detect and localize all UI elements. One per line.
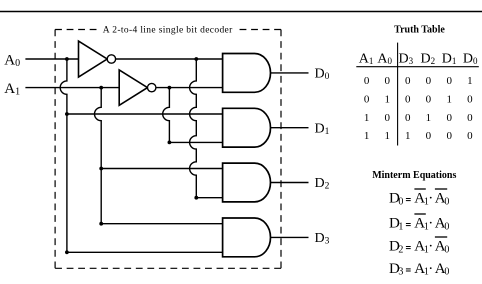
inverter U1 (A0): [79, 41, 116, 77]
wire A0' branch to AND3 bottom: [196, 197, 222, 199]
wire A0 branch to AND4 bottom: [67, 251, 223, 253]
and-gate G3 (D2): [223, 163, 271, 202]
and-gate G2 (D1): [223, 108, 271, 147]
wire A0 rail to AND2 top: [67, 113, 223, 115]
top page rule: [0, 11, 482, 13]
junction A0 rail3: [65, 112, 69, 116]
wire A0' rail to AND1 top: [116, 58, 223, 60]
junction A1 corner: [99, 222, 103, 226]
junction A0' rail tap: [194, 57, 198, 61]
svg-text:A 2-to-4 line single bit decod: A 2-to-4 line single bit decoder: [103, 26, 233, 36]
equation D2: [389, 237, 449, 255]
equation D3: [389, 261, 449, 278]
wire vertical A1' drop with hop: [163, 88, 170, 143]
truth table column divider: [397, 43, 399, 146]
junction A1' corner: [168, 141, 172, 145]
wire A0 input: [25, 58, 78, 60]
wire D1 output: [271, 127, 309, 129]
junction A1 rail tap: [99, 86, 103, 90]
junction A0 rail tap: [65, 57, 69, 61]
junction A0' corner: [194, 196, 198, 200]
svg-text:D3A1·A0: D3A1·A0: [389, 261, 449, 278]
junction A1 branch: [99, 167, 103, 171]
wire A1' branch to AND2 bottom: [169, 141, 222, 143]
svg-text:Minterm Equations: Minterm Equations: [372, 170, 456, 181]
wire A1 branch to AND3 top: [101, 168, 222, 170]
truth table header rule: [356, 66, 479, 68]
svg-text:D1A1·A0: D1A1·A0: [389, 216, 449, 233]
wire A1' rail to AND1 bottom: [156, 87, 223, 89]
svg-text:Truth Table: Truth Table: [394, 25, 445, 36]
and-gate G4 (D3): [223, 218, 271, 257]
wire A1 branch to AND4 top: [101, 223, 222, 225]
wire vertical A0' drop with hops: [190, 59, 197, 198]
junction A1' rail tap: [168, 86, 172, 90]
dashed enclosure box: [55, 29, 281, 31]
wire A1 input: [25, 87, 119, 89]
wire D0 output: [271, 72, 309, 74]
wire vertical A0 drop with hop: [60, 59, 67, 252]
equation D1: [389, 214, 449, 232]
wire D3 output: [271, 236, 309, 238]
wire D2 output: [271, 182, 309, 184]
equation D0: [389, 189, 449, 207]
and-gate G1 (D0): [223, 53, 271, 92]
junction A0 corner: [65, 250, 69, 254]
svg-text:D2A1·A0: D2A1·A0: [389, 239, 449, 256]
wire vertical A1 drop with hop: [95, 88, 102, 224]
svg-text:D0A1·A0: D0A1·A0: [389, 191, 449, 208]
inverter U2 (A1): [119, 70, 156, 105]
